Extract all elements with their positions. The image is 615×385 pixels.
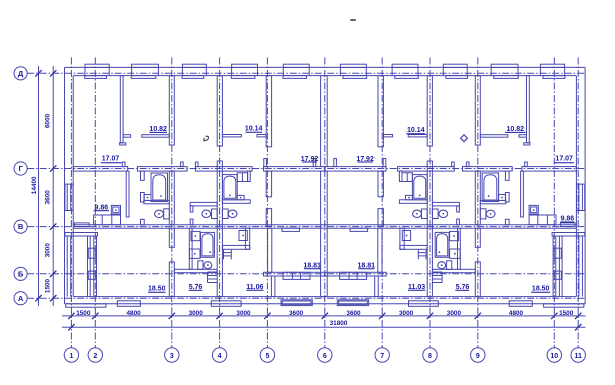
svg-text:7: 7 — [380, 353, 384, 360]
svg-text:4800: 4800 — [509, 310, 524, 317]
svg-text:3600: 3600 — [346, 310, 361, 317]
svg-text:8: 8 — [428, 353, 432, 360]
svg-text:14400: 14400 — [31, 176, 38, 194]
svg-text:3000: 3000 — [447, 310, 462, 317]
svg-text:10.82: 10.82 — [507, 126, 525, 133]
svg-text:10.14: 10.14 — [245, 125, 263, 132]
svg-text:1500: 1500 — [76, 310, 91, 317]
svg-text:3: 3 — [170, 353, 174, 360]
svg-text:Б: Б — [18, 269, 24, 278]
svg-text:17.07: 17.07 — [102, 155, 120, 162]
svg-text:5.76: 5.76 — [456, 284, 470, 291]
svg-text:3000: 3000 — [399, 310, 414, 317]
svg-text:31800: 31800 — [330, 320, 348, 327]
svg-text:1500: 1500 — [45, 278, 52, 293]
svg-text:4800: 4800 — [126, 310, 141, 317]
svg-text:1: 1 — [69, 353, 73, 360]
svg-text:10.14: 10.14 — [407, 127, 425, 134]
svg-text:2: 2 — [93, 353, 97, 360]
svg-text:А: А — [18, 294, 24, 303]
svg-text:17.07: 17.07 — [555, 155, 573, 162]
svg-text:1500: 1500 — [559, 310, 574, 317]
svg-text:В: В — [18, 222, 24, 231]
svg-text:3000: 3000 — [45, 243, 52, 258]
svg-text:10.82: 10.82 — [149, 126, 167, 133]
svg-text:6: 6 — [323, 353, 327, 360]
svg-text:3000: 3000 — [189, 310, 204, 317]
svg-text:18.50: 18.50 — [148, 286, 166, 293]
svg-text:3600: 3600 — [45, 190, 52, 205]
svg-text:5.76: 5.76 — [189, 284, 203, 291]
svg-text:6000: 6000 — [45, 113, 52, 128]
svg-text:11.06: 11.06 — [246, 284, 263, 291]
svg-text:10: 10 — [550, 353, 558, 360]
svg-text:3000: 3000 — [236, 310, 251, 317]
svg-text:18.50: 18.50 — [532, 286, 550, 293]
svg-text:9: 9 — [476, 353, 480, 360]
svg-text:4: 4 — [218, 353, 222, 360]
svg-text:11: 11 — [574, 353, 582, 360]
svg-text:Г: Г — [18, 164, 23, 173]
svg-text:Д: Д — [18, 69, 24, 78]
svg-text:11.03: 11.03 — [408, 284, 425, 291]
svg-text:5: 5 — [265, 353, 269, 360]
svg-text:3600: 3600 — [289, 310, 304, 317]
